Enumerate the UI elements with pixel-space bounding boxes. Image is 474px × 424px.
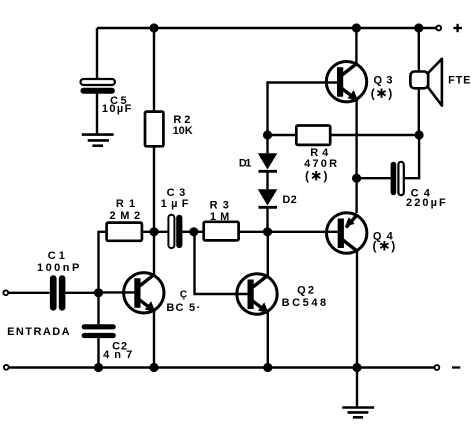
svg-text:C1: C1 — [48, 250, 68, 262]
svg-text:R1: R1 — [116, 198, 140, 210]
wire R1 right lead — [142, 231, 154, 233]
svg-text:100nP: 100nP — [37, 262, 82, 274]
wire input to C1 — [8, 292, 49, 294]
wire R4 left lead — [268, 134, 297, 136]
label + sign — [453, 24, 462, 32]
svg-text:2M2: 2M2 — [109, 210, 144, 222]
label - sign — [452, 366, 460, 368]
ground bottom — [342, 408, 374, 418]
wire Q1 base — [99, 291, 137, 293]
wire speaker top lead — [418, 28, 420, 72]
wire C1 to node A — [65, 292, 98, 294]
svg-text:470R: 470R — [304, 158, 339, 170]
wire R2 top lead — [153, 28, 155, 112]
node junction R2 top — [149, 23, 158, 32]
diode D2 — [258, 189, 278, 207]
svg-text:Q2: Q2 — [297, 285, 316, 297]
terminal input top — [3, 290, 8, 295]
wire bottom rail — [9, 366, 435, 368]
svg-text:Ç: Ç — [180, 290, 188, 301]
node junction R1/R2/C3/Q1 collector — [149, 227, 158, 236]
svg-text:R2: R2 — [173, 114, 193, 126]
transistor Q4 PNP — [327, 213, 367, 253]
wire C2 to bottom rail — [97, 338, 99, 367]
svg-text:220µF: 220µF — [406, 197, 448, 209]
node junction R4/speaker/C4 — [415, 130, 424, 139]
transistor Q2 — [237, 274, 277, 314]
wire Q2 emitter — [267, 312, 269, 368]
capacitor C3 — [168, 215, 182, 248]
wire C5 top lead — [96, 28, 98, 80]
wire Q4 base — [268, 231, 338, 233]
svg-text:): ) — [391, 239, 395, 253]
svg-text:BC 5·: BC 5· — [166, 302, 201, 314]
label (*) Q3 — [371, 87, 393, 101]
wire R3 left lead — [194, 231, 204, 233]
svg-text:10µF: 10µF — [102, 103, 133, 115]
terminal input bottom — [4, 365, 9, 370]
node junction ground on bottom rail — [352, 363, 361, 372]
resistor R4 — [296, 126, 330, 145]
label (*) Q4 — [373, 239, 396, 253]
node junction Q2 emitter on bottom rail — [263, 363, 272, 372]
svg-text:): ) — [388, 87, 392, 101]
wire ground stem — [356, 368, 358, 407]
resistor R3 — [204, 222, 239, 241]
svg-text:(: ( — [371, 87, 375, 101]
node junction C3/R3/Q2 base — [189, 227, 198, 236]
wire D2 bottom to node — [266, 209, 268, 232]
resistor R2 — [145, 112, 163, 147]
transistor Q3 — [326, 61, 366, 101]
wire between D1 and D2 — [266, 173, 268, 190]
wire Q3 collector to rail — [355, 28, 357, 64]
wire Q1 collector — [153, 232, 155, 276]
resistor R1 — [107, 223, 142, 241]
wire D1 top to node — [266, 135, 268, 153]
svg-text:(: ( — [373, 239, 377, 253]
wire Q1 emitter — [153, 311, 155, 368]
wire Q2 base from C3 node — [195, 232, 251, 294]
wire Q3 base — [268, 83, 338, 136]
node junction D1/R4/Q3 base — [263, 130, 272, 139]
svg-text:1M: 1M — [210, 211, 234, 223]
wire top supply rail — [97, 27, 436, 29]
node junction Q1 emitter on bottom rail — [149, 363, 158, 372]
terminal + positive supply — [436, 26, 441, 31]
svg-text:D1: D1 — [239, 158, 251, 170]
svg-text:4n7: 4n7 — [103, 349, 137, 361]
ground below C5 — [82, 135, 114, 146]
capacitor C5 — [81, 79, 115, 94]
wire C4 left lead — [357, 177, 391, 179]
svg-text:FTE: FTE — [448, 74, 471, 86]
wire node A up to R1 — [99, 232, 107, 293]
svg-text:10K: 10K — [173, 125, 193, 137]
wire speaker bottom lead — [418, 88, 420, 135]
wire C3 right lead — [182, 231, 193, 233]
svg-text:C3: C3 — [167, 187, 190, 199]
capacitor C4 — [391, 162, 404, 195]
svg-text:BC548: BC548 — [282, 297, 329, 309]
svg-text:D2: D2 — [282, 194, 297, 206]
diode D1 — [258, 153, 278, 171]
speaker FTE — [410, 59, 442, 106]
svg-text:): ) — [324, 169, 328, 183]
svg-text:Q3: Q3 — [373, 74, 397, 86]
capacitor C2 — [82, 324, 116, 338]
wire Q2 collector — [267, 232, 269, 277]
node junction D2/R3/Q4 base — [263, 227, 272, 236]
wire Q4 collector to bottom rail — [356, 252, 358, 368]
wire R3 right lead — [239, 231, 268, 233]
capacitor C1 — [50, 275, 66, 310]
node junction C2 on bottom rail — [94, 363, 103, 372]
wire C4 right lead up to speaker node — [404, 135, 419, 178]
wire C5 bottom lead — [96, 94, 98, 134]
node junction speaker on rail — [414, 23, 423, 32]
wire Q3 emitter to Q4 — [355, 99, 357, 213]
svg-text:R3: R3 — [210, 200, 234, 212]
node junction C4 on output line — [352, 174, 361, 183]
transistor Q1 — [124, 273, 164, 313]
label (*) R4 — [305, 169, 328, 183]
terminal - negative supply — [435, 365, 440, 370]
wire node A down to C2 — [97, 293, 99, 324]
wire C3 left lead — [154, 231, 168, 233]
node junction Q3 collector on rail — [352, 23, 361, 32]
wire R4 right lead to speaker node — [330, 134, 419, 136]
svg-text:ENTRADA: ENTRADA — [7, 326, 71, 338]
svg-text:1µF: 1µF — [161, 198, 193, 210]
svg-text:(: ( — [305, 169, 309, 183]
wire R2 bottom lead — [153, 146, 155, 232]
node A junction C1/R1/C2/Q1 base — [94, 288, 103, 297]
